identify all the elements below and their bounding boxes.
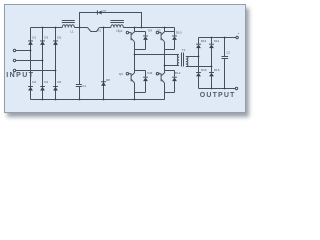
wire bridge leg 1: [30, 28, 32, 100]
svg-text:D6: D6: [57, 80, 61, 84]
svg-text:D14: D14: [214, 39, 220, 43]
cell bars upper left: [135, 31, 146, 33]
svg-text:D16: D16: [214, 68, 220, 72]
svg-text:D12: D12: [175, 71, 181, 75]
transistor Q3: [126, 73, 128, 75]
node input phase 1: [13, 49, 15, 51]
diode D9: [143, 36, 148, 40]
svg-text:Q2: Q2: [157, 28, 161, 32]
wire mid node A to transformer: [135, 54, 180, 56]
diode D8 branch: [103, 28, 105, 100]
diode D7: [98, 11, 102, 15]
wire bridge leg 2: [42, 28, 44, 100]
transistor Q1: [126, 31, 128, 33]
capacitor C1 branch: [79, 28, 81, 85]
wire shunt to L2: [99, 27, 111, 29]
inductor L1: [62, 25, 74, 28]
diode D2: [28, 87, 33, 91]
capacitor C2: [224, 38, 226, 57]
H-bridge leg A column: [134, 28, 136, 32]
svg-text:D13: D13: [201, 39, 207, 43]
svg-text:D8: D8: [106, 78, 110, 82]
svg-text:D10: D10: [176, 31, 182, 35]
svg-text:D7: D7: [103, 9, 107, 13]
svg-text:T1: T1: [182, 48, 186, 52]
transistor Q4: [156, 73, 158, 75]
wire bridge leg 3: [55, 28, 57, 100]
output leg 2: [211, 38, 213, 44]
svg-text:D5: D5: [57, 35, 61, 39]
cell bars lower left: [135, 70, 146, 72]
svg-text:D3: D3: [44, 35, 48, 39]
diode D13: [196, 45, 201, 49]
wire D7 branch: [80, 13, 142, 28]
wire mid node B to transformer: [165, 65, 180, 67]
output leg 1: [198, 38, 200, 44]
wire output plus rail: [199, 37, 236, 39]
diode D4: [40, 87, 45, 91]
diode D16: [209, 73, 214, 77]
node output plus terminal: [236, 36, 238, 38]
diode D12: [172, 78, 177, 82]
junction dots: [42, 27, 44, 29]
transistor Q2: [156, 31, 158, 33]
svg-text:R1: R1: [97, 28, 101, 32]
svg-text:C2: C2: [226, 50, 230, 54]
shunt R1 dip: [88, 28, 100, 32]
wire bottom DC bus: [31, 99, 165, 101]
diode D15: [196, 73, 201, 77]
svg-text:OUTPUT: OUTPUT: [200, 92, 236, 99]
wire output minus rail: [199, 88, 236, 90]
svg-text:D4: D4: [44, 80, 48, 84]
cell bars lower right: [165, 70, 175, 72]
diode D1: [28, 41, 33, 45]
svg-text:Q4: Q4: [156, 72, 160, 76]
diode D8: [101, 82, 106, 86]
diode D5: [53, 41, 58, 45]
diode D11: [143, 78, 148, 82]
inductor L2: [111, 25, 123, 28]
wire secondary top: [186, 56, 199, 58]
svg-text:Q1: Q1: [118, 29, 122, 33]
node input phase 3: [13, 69, 15, 71]
svg-text:D2: D2: [32, 80, 36, 84]
diode D6: [53, 87, 58, 91]
transformer T1 secondary: [186, 57, 188, 67]
svg-text:C1: C1: [82, 84, 86, 88]
wire top DC bus: [31, 27, 63, 29]
svg-text:D9: D9: [148, 29, 152, 33]
svg-text:+: +: [238, 31, 240, 35]
node output minus terminal: [235, 87, 237, 89]
node input phase 2: [13, 59, 15, 61]
wire bus L1 to shunt: [74, 27, 87, 29]
svg-text:D15: D15: [201, 68, 207, 72]
transformer T1 core: [181, 53, 183, 67]
diode D14: [209, 45, 214, 49]
svg-text:D11: D11: [147, 71, 153, 75]
transformer T1 primary: [177, 55, 179, 66]
wire bus L2 to bridge rail end: [123, 27, 174, 29]
wire secondary bottom: [186, 66, 212, 68]
svg-text:D1: D1: [32, 35, 36, 39]
diode D10: [172, 36, 177, 40]
diode D3: [40, 41, 45, 45]
H-bridge leg B column: [164, 28, 166, 32]
svg-text:L1: L1: [70, 30, 74, 34]
svg-text:Q3: Q3: [119, 72, 123, 76]
svg-text:INPUT: INPUT: [6, 72, 34, 79]
cell bars upper right: [165, 31, 175, 33]
